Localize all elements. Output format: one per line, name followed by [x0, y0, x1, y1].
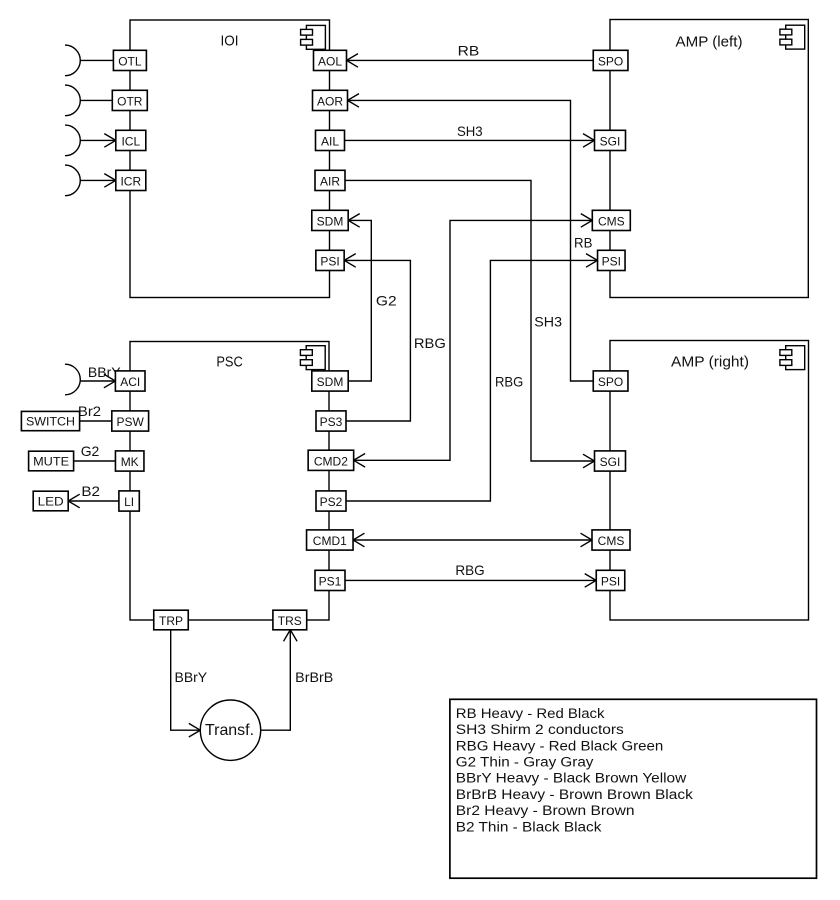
svg-text:PSW: PSW — [117, 415, 145, 429]
port PSI (AMP left) — [598, 250, 626, 270]
svg-text:AMP (right): AMP (right) — [671, 355, 749, 371]
wire RB SPO(right) to AOR — [348, 100, 595, 381]
svg-text:MK: MK — [121, 455, 139, 469]
arrowhead into CMD2 — [354, 454, 366, 468]
svg-text:ICR: ICR — [120, 174, 141, 188]
port ICL — [116, 130, 146, 150]
socket symbol at OTR — [65, 85, 80, 116]
port TRP — [154, 610, 189, 630]
arrowhead into AOR — [348, 94, 360, 108]
component PSC frame — [130, 342, 329, 621]
wire ACI socket stub — [80, 380, 115, 382]
component AMP (right) frame — [610, 341, 809, 621]
arrowhead into SGI(right) — [583, 454, 595, 468]
svg-text:CMD2: CMD2 — [314, 454, 348, 468]
port ACI — [115, 371, 145, 391]
wire RBG PS2 to PSI(AMP left) — [346, 260, 598, 501]
svg-text:G2: G2 — [81, 443, 100, 459]
svg-text:AMP (left): AMP (left) — [676, 34, 743, 50]
svg-text:CMS: CMS — [598, 534, 625, 548]
port SDM (PSC) — [312, 371, 348, 391]
svg-text:RB: RB — [458, 43, 480, 59]
svg-text:AOL: AOL — [318, 54, 342, 68]
svg-text:AIL: AIL — [321, 134, 339, 148]
svg-text:Transf.: Transf. — [205, 722, 254, 739]
svg-text:TRP: TRP — [159, 614, 183, 628]
arrowhead into ICL — [104, 134, 116, 148]
port OTR — [112, 90, 147, 110]
wire G2 SDM(PSC) to SDM(IOI) — [348, 220, 371, 381]
arrowhead into SGI(left) — [583, 134, 595, 148]
svg-text:B2 Thin - Black Black: B2 Thin - Black Black — [456, 819, 602, 834]
port SPO (AMP left) — [593, 50, 628, 70]
port PSW — [112, 411, 149, 431]
svg-text:RBG Heavy - Red Black Green: RBG Heavy - Red Black Green — [456, 738, 664, 753]
transformer Transf. circle — [200, 700, 260, 760]
svg-text:SDM: SDM — [317, 214, 344, 228]
arrowhead into SDM(IOI) — [348, 214, 360, 228]
svg-text:AOR: AOR — [317, 94, 343, 108]
port SGI (AMP left) — [595, 130, 626, 150]
svg-text:CMS: CMS — [598, 214, 625, 228]
svg-text:SGI: SGI — [600, 134, 621, 148]
svg-text:Br2: Br2 — [78, 403, 101, 419]
svg-text:SDM: SDM — [317, 375, 344, 389]
svg-text:SWITCH: SWITCH — [26, 414, 75, 428]
svg-text:RB: RB — [574, 234, 592, 250]
port SPO (AMP right) — [593, 371, 628, 391]
svg-text:BBrY Heavy - Black Brown Yello: BBrY Heavy - Black Brown Yellow — [456, 771, 687, 786]
port CMS (AMP right) — [592, 530, 630, 550]
wire RB SPO(left) to AOL — [347, 59, 594, 61]
svg-text:RBG: RBG — [495, 374, 523, 390]
svg-text:SH3: SH3 — [457, 123, 483, 139]
svg-text:CMD1: CMD1 — [313, 534, 347, 548]
arrowhead into PSI(AMP left) — [586, 254, 598, 268]
port PS2 — [316, 491, 346, 511]
svg-text:SGI: SGI — [600, 455, 621, 469]
box SWITCH — [21, 411, 79, 430]
arrowhead into PSI(AMP right) — [585, 574, 597, 588]
svg-text:SPO: SPO — [598, 54, 623, 68]
port PS1 — [315, 570, 345, 590]
svg-text:BBrY: BBrY — [175, 669, 208, 685]
component PSC icon — [300, 346, 325, 370]
svg-text:PS1: PS1 — [319, 574, 342, 588]
wire SWITCH to PSW — [80, 420, 112, 422]
component AMP (right) icon — [780, 346, 805, 370]
svg-text:RB Heavy - Red Black: RB Heavy - Red Black — [456, 706, 605, 721]
port PSI (AMP right) — [596, 570, 625, 590]
svg-text:SH3: SH3 — [534, 314, 562, 330]
svg-text:PSI: PSI — [601, 574, 620, 588]
svg-text:IOI: IOI — [221, 33, 239, 49]
svg-text:PS2: PS2 — [320, 495, 343, 509]
svg-text:BrBrB: BrBrB — [295, 669, 333, 685]
arrowhead into Transf. — [189, 723, 201, 737]
svg-text:PSI: PSI — [320, 254, 339, 268]
port ICR — [116, 170, 146, 190]
port PSI (IOI) — [316, 250, 344, 270]
svg-text:RBG: RBG — [414, 335, 446, 351]
socket symbol at OTL — [65, 45, 80, 76]
arrowhead into ACI — [104, 374, 116, 388]
port AOL — [314, 50, 347, 70]
wire RBG PS1 to PSI(AMP right) — [345, 579, 596, 581]
port CMS (AMP left) — [592, 210, 630, 230]
port TRS — [273, 610, 307, 630]
wire ICR socket stub — [80, 179, 116, 181]
arrowhead into CMS(left) — [581, 214, 593, 228]
socket symbol at ACI — [65, 364, 80, 395]
component AMP (left) frame — [610, 20, 808, 298]
port AIL — [316, 130, 345, 150]
port CMD2 — [308, 450, 354, 470]
svg-text:G2 Thin - Gray Gray: G2 Thin - Gray Gray — [456, 755, 594, 770]
box MUTE — [29, 451, 74, 471]
port SDM (IOI) — [312, 210, 348, 230]
svg-text:ACI: ACI — [120, 375, 140, 389]
svg-text:TRS: TRS — [278, 614, 302, 628]
socket symbol at ICL — [65, 125, 80, 156]
port AIR — [315, 170, 345, 190]
legend box frame — [450, 699, 817, 878]
svg-text:B2: B2 — [81, 483, 100, 499]
port MK — [115, 451, 144, 471]
arrowhead into AOL — [347, 54, 359, 68]
arrowhead into CMS(right) — [581, 533, 593, 547]
svg-text:RBG: RBG — [455, 562, 484, 578]
wire OTR socket stub — [80, 99, 112, 101]
svg-text:OTL: OTL — [118, 54, 142, 68]
wire RBG PS3 to PSI(IOI) — [344, 260, 410, 421]
wire BBrY TRP to Transf. — [171, 630, 201, 730]
port PS3 — [316, 411, 346, 431]
svg-text:PSI: PSI — [602, 254, 621, 268]
port CMD1 — [307, 530, 354, 550]
arrowhead into TRS — [284, 630, 298, 642]
wire SH3 AIR to SGI(right) — [345, 180, 595, 461]
wire OTL socket stub — [80, 59, 113, 61]
wire MUTE to MK — [74, 460, 116, 462]
wire LI to LED — [68, 500, 119, 502]
wire SH3 AIL to SGI(left) — [345, 139, 595, 141]
svg-text:ICL: ICL — [121, 134, 140, 148]
arrowhead into CMD1 — [353, 533, 365, 547]
svg-text:LI: LI — [124, 495, 134, 509]
port LI — [119, 491, 139, 511]
wire ICL socket stub — [80, 139, 116, 141]
socket symbol at ICR — [65, 165, 80, 196]
arrowhead into LED — [68, 494, 80, 508]
box LED — [33, 491, 68, 511]
component IOI frame — [130, 20, 330, 298]
svg-text:AIR: AIR — [320, 174, 340, 188]
svg-text:G2: G2 — [376, 293, 397, 309]
port SGI (AMP right) — [595, 451, 626, 471]
svg-text:BrBrB Heavy - Brown Brown Blac: BrBrB Heavy - Brown Brown Black — [456, 787, 693, 802]
wire CMD2 to CMS(left) — [354, 220, 593, 460]
svg-text:SPO: SPO — [598, 375, 623, 389]
svg-text:OTR: OTR — [117, 94, 143, 108]
svg-text:Br2 Heavy - Brown Brown: Br2 Heavy - Brown Brown — [456, 803, 635, 818]
svg-text:SH3 Shirm 2 conductors: SH3 Shirm 2 conductors — [456, 722, 624, 737]
component AMP (left) icon — [780, 25, 805, 49]
port OTL — [113, 50, 146, 70]
wire BrBrB Transf. to TRS — [261, 630, 291, 730]
arrowhead into ICR — [104, 174, 116, 188]
wire CMD1 to CMS(right) — [353, 539, 592, 541]
svg-text:PSC: PSC — [216, 354, 243, 370]
svg-text:MUTE: MUTE — [33, 454, 69, 468]
svg-text:LED: LED — [38, 494, 64, 508]
svg-text:PS3: PS3 — [320, 415, 343, 429]
port AOR — [313, 90, 348, 110]
component IOI icon — [301, 25, 326, 49]
arrowhead into PSI(IOI) — [344, 254, 356, 268]
